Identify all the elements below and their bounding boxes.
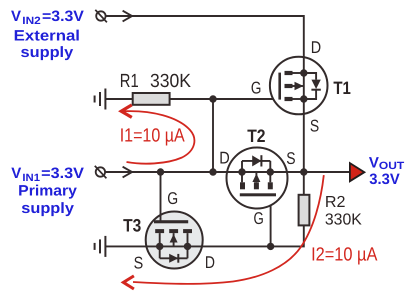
svg-text:Primary: Primary xyxy=(18,182,77,199)
svg-text:I1=10 µA: I1=10 µA xyxy=(120,125,185,146)
svg-text:I2=10 µA: I2=10 µA xyxy=(311,244,378,265)
svg-text:T2: T2 xyxy=(247,126,265,146)
svg-text:supply: supply xyxy=(21,44,74,61)
node dot output junction (T1 S / T2 S / R2 / VOUT) xyxy=(300,168,307,175)
svg-text:supply: supply xyxy=(21,200,74,217)
transistor T2 (MOSFET rotated, D left, S right, G bottom) xyxy=(227,148,288,209)
svg-text:R2: R2 xyxy=(325,194,346,211)
svg-text:=3.3V: =3.3V xyxy=(42,8,84,25)
resistor R2 xyxy=(299,195,310,226)
label VIN2 supply (blue) xyxy=(11,8,84,61)
svg-text:G: G xyxy=(254,209,264,228)
svg-text:S: S xyxy=(286,149,295,168)
svg-text:V: V xyxy=(369,154,379,171)
transistor T3 body circle (gray) xyxy=(146,212,203,269)
wire R2 top lead xyxy=(303,172,305,195)
transistor T1 (P-MOSFET, D top, G left, S bottom) xyxy=(270,57,328,115)
resistor R1 xyxy=(133,93,170,105)
label VOUT (blue) xyxy=(369,154,405,188)
current loop I1 (red arc with arrowhead) xyxy=(121,105,194,164)
svg-text:R1: R1 xyxy=(120,71,139,92)
svg-text:D: D xyxy=(311,38,321,57)
current loop I2 (red arc with arrowhead) xyxy=(123,175,323,289)
svg-text:330K: 330K xyxy=(150,71,191,92)
svg-text:G: G xyxy=(251,79,262,98)
svg-text:OUT: OUT xyxy=(379,160,405,172)
wire T2 gate lead down to bottom net xyxy=(270,196,272,246)
svg-text:S: S xyxy=(310,117,319,136)
node dot T2 gate / bottom net junction xyxy=(267,243,274,250)
wire node link x=213 between R1 row and VIN1 rail xyxy=(212,99,214,172)
wire R1 row from ground to T1 gate xyxy=(105,98,279,100)
svg-text:D: D xyxy=(219,149,230,168)
label VIN1 supply (blue) xyxy=(11,165,84,217)
svg-text:T1: T1 xyxy=(333,78,351,98)
ground for T3 source xyxy=(95,236,106,257)
svg-text:G: G xyxy=(167,189,178,208)
svg-text:T3: T3 xyxy=(123,215,141,235)
svg-text:D: D xyxy=(205,253,215,272)
svg-text:V: V xyxy=(11,8,21,25)
svg-text:=3.3V: =3.3V xyxy=(41,165,84,182)
wire T3 gate lead from VIN1 rail xyxy=(160,172,162,221)
transistor T3 internals (G top, S bottom-left, D bottom-right) xyxy=(154,220,192,263)
ground for R1 xyxy=(95,89,106,110)
svg-text:S: S xyxy=(134,254,144,273)
arrow chevron on VIN1 wire xyxy=(123,167,132,178)
svg-text:V: V xyxy=(11,165,21,182)
node dot VIN1/link junction xyxy=(209,168,216,175)
terminal VIN2 xyxy=(95,10,107,22)
terminal VIN1 xyxy=(95,166,107,179)
wire VIN2 top rail from terminal to T1 drain xyxy=(106,16,304,172)
wire bottom net from ground/T3 to R2 bottom xyxy=(105,225,303,246)
svg-text:330K: 330K xyxy=(325,212,362,229)
svg-text:IN2: IN2 xyxy=(22,15,41,27)
wire VIN1 rail to VOUT arrow xyxy=(105,171,350,173)
svg-text:3.3V: 3.3V xyxy=(369,171,399,188)
svg-text:External: External xyxy=(14,28,80,45)
node dot VIN1/T3-gate junction xyxy=(157,168,164,175)
VOUT arrow (red triangle) xyxy=(350,163,365,181)
node dot R1/T1-gate junction xyxy=(209,95,216,102)
arrow chevron on VIN2 wire xyxy=(123,11,132,22)
